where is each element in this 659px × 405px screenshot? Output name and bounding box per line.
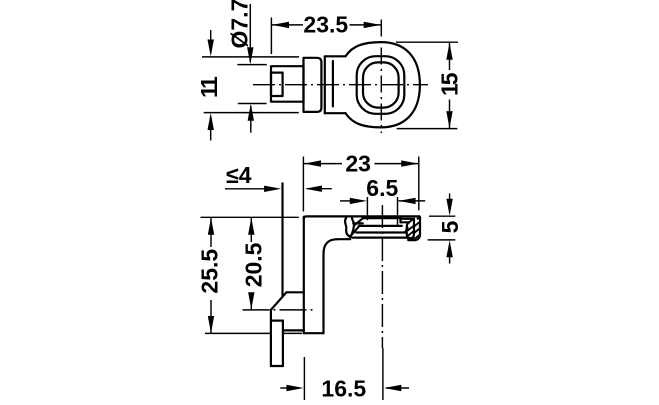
pin step [271, 320, 283, 322]
dimension 16.5 extension line left [303, 357, 305, 400]
dimension 5 extension line bottom [428, 239, 456, 241]
dimension 5 extension line top [429, 215, 455, 217]
left flare diagonal [354, 218, 363, 225]
dimension 11 arrow shaft bottom [210, 128, 212, 141]
arrowhead 23 left [304, 160, 321, 166]
dimension Ø7.7 extension line bottom [238, 103, 267, 105]
arrowhead 15 bottom [446, 111, 452, 128]
arrowhead 11 top [208, 40, 214, 57]
screw body (top view) [271, 66, 304, 102]
svg-text:≤4: ≤4 [226, 162, 252, 188]
arrowhead 6.5 left [350, 198, 367, 204]
dimension 15 extension line bottom [397, 128, 458, 130]
dimension 23 line right segment [375, 163, 419, 165]
arrowhead 16.5 right [384, 385, 401, 391]
clip bottom edge [283, 329, 304, 331]
cavity left hatch diagonal [353, 226, 359, 233]
break squiggle right side [350, 218, 354, 237]
arrowhead <=4 right [305, 186, 322, 192]
dimension 15 line upper segment [449, 42, 451, 70]
slot centerline solid lower extension (16.5 right extension) [382, 348, 384, 400]
lip foot dark fill [407, 237, 414, 240]
arrowhead Ø7.7 lower [248, 104, 254, 121]
neck step edge [332, 61, 334, 106]
dimension 25.5 line lower segment [210, 300, 212, 333]
screw tip box [271, 73, 283, 96]
arrowhead 20.5 bottom [248, 292, 254, 309]
underside line (right of squiggle) [352, 237, 408, 239]
arrowhead Ø7.7 upper [247, 47, 253, 64]
dimension 11 extension line top [202, 56, 299, 58]
washer collar [304, 58, 322, 112]
wedge top edge [286, 291, 303, 293]
dimension 25.5 extension line bottom right [283, 332, 302, 334]
break squiggle tip nib [349, 235, 352, 238]
dimension 20.5 line lower segment [250, 295, 252, 309]
pin left edge [270, 310, 272, 366]
arrowhead 25.5 top [208, 218, 214, 235]
break squiggle left side [345, 217, 350, 237]
svg-text:Ø7.7: Ø7.7 [226, 0, 252, 49]
dimension 23 line left segment [303, 163, 342, 165]
arrowhead 6.5 right [399, 198, 416, 204]
arrowhead 23.5 left [272, 22, 289, 28]
arrowhead 5 bottom [446, 240, 452, 257]
svg-text:15: 15 [437, 72, 463, 96]
arrowhead 20.5 top [248, 218, 254, 235]
neck left face [324, 56, 326, 113]
svg-text:25.5: 25.5 [196, 249, 222, 294]
vertical arm bottom edge [304, 332, 324, 334]
dimension 23.5 line right segment [350, 24, 382, 26]
dimension Ø7.7 leader upper [249, 4, 251, 62]
dimension 25.5 extension line top [201, 216, 299, 218]
dimension 11 arrow shaft top [210, 30, 212, 42]
dimension 23 extension line right [418, 157, 420, 211]
arrowhead 16.5 left [287, 385, 304, 391]
vertical centerline ring head [380, 20, 382, 134]
lip bar top edge [401, 218, 414, 220]
arrowhead 25.5 bottom [208, 316, 214, 333]
svg-text:11: 11 [196, 76, 222, 98]
dimension 15 extension line top [396, 41, 458, 43]
pin horizontal centerline [243, 309, 314, 311]
arrowhead 15 top [446, 43, 452, 60]
inner fillet and inner arm edge [324, 239, 338, 333]
dimension 20.5 line upper segment [250, 218, 252, 242]
horizontal centerline top view [253, 84, 428, 86]
dimension 11 extension line bottom [204, 112, 299, 114]
vertical arm left edge [303, 217, 305, 334]
bracket right end and bottom lip [408, 216, 420, 240]
right step down [399, 218, 401, 222]
hatch strokes right margin [417, 217, 420, 219]
ring head outline [346, 42, 420, 127]
left shelf line [353, 222, 363, 224]
arrowhead <=4 left [264, 186, 281, 192]
dimension 23.5 extension line left [270, 18, 272, 55]
cavity right end chamfer [405, 228, 408, 233]
clip blade front edge [281, 183, 283, 296]
svg-text:16.5: 16.5 [321, 375, 366, 400]
dimension 16.5 tail left [280, 387, 287, 389]
lip stem outline [407, 219, 414, 239]
slot cavity bottom line [356, 231, 405, 233]
arrowhead 5 top [446, 199, 452, 216]
oval slot inner [363, 62, 399, 107]
wedge diagonal [271, 292, 287, 310]
neck bottom line [325, 112, 346, 114]
dimension 6.5 tail left [340, 200, 350, 202]
dimension 5 arrow shaft bottom [449, 255, 451, 264]
dimension 23 extension line left [302, 157, 304, 212]
dimension 25.5 line upper segment [210, 218, 212, 247]
arrowhead 11 bottom [208, 113, 214, 130]
svg-text:5: 5 [437, 220, 463, 233]
dimension 15 line lower segment [449, 100, 451, 129]
pin right edge [282, 321, 284, 366]
dimension 25.5 extension line bottom left [205, 332, 271, 334]
dimension <=4 leader tail right [307, 188, 332, 190]
pin bottom edge [271, 365, 283, 367]
dimension 6.5 extension line left [366, 197, 368, 220]
arrowhead 23 right [401, 160, 418, 166]
slot vertical centerline [381, 205, 383, 348]
hatch strokes lip stem [407, 226, 413, 231]
bracket top edge [304, 216, 419, 219]
dimension <=4 leader tail left [225, 188, 266, 190]
svg-text:23: 23 [345, 151, 371, 177]
hatch stroke lip bar [409, 219, 413, 223]
arrowhead 23.5 right [364, 22, 381, 28]
svg-text:6.5: 6.5 [366, 175, 398, 201]
dimension 16.5 tail right [386, 387, 409, 389]
underside line (left of squiggle) [338, 238, 351, 240]
svg-text:23.5: 23.5 [303, 12, 348, 38]
dimension Ø7.7 leader lower [250, 106, 252, 133]
svg-text:20.5: 20.5 [240, 242, 266, 287]
oval slot outer [357, 56, 405, 114]
dimension 6.5 tail right [399, 200, 426, 202]
slot cavity top line [359, 225, 402, 227]
dimension 5 arrow shaft top [449, 194, 451, 202]
slot ceiling line [363, 217, 401, 219]
lip bar bottom edge [401, 221, 410, 223]
dimension Ø7.7 extension line top [237, 64, 266, 66]
neck top line [325, 55, 346, 57]
dimension 6.5 extension line right [397, 197, 399, 225]
dimension 23.5 line left segment [271, 24, 303, 26]
